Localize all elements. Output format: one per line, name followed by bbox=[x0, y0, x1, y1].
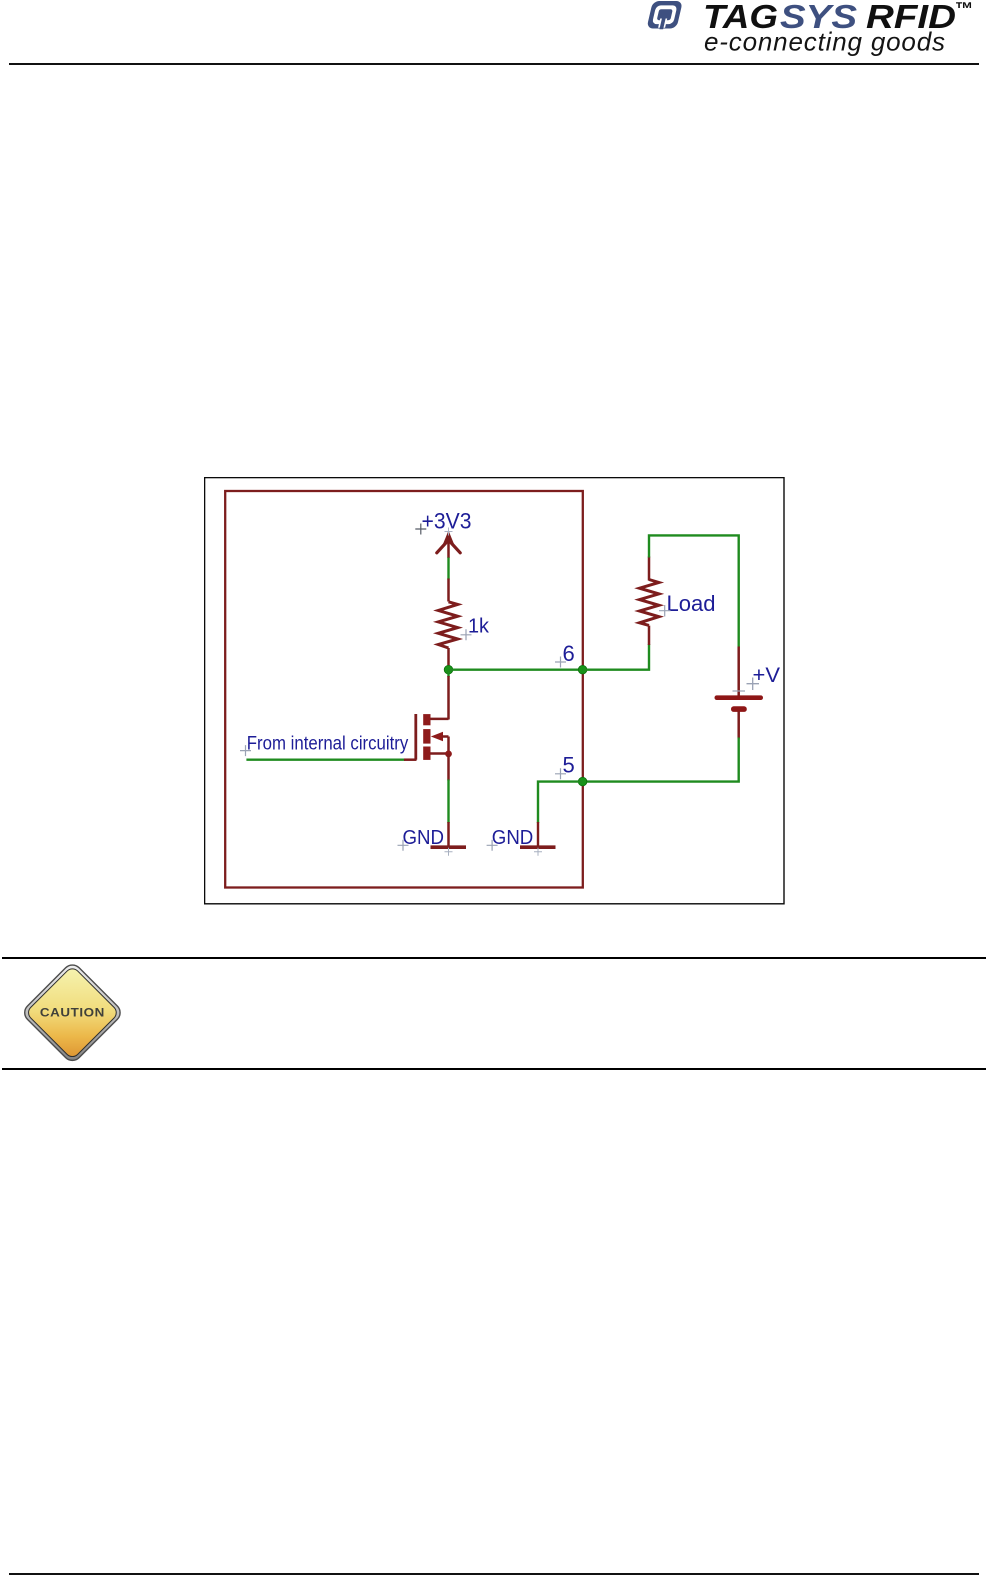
svg-text:+3V3: +3V3 bbox=[422, 509, 472, 534]
resistor Load bbox=[640, 557, 659, 646]
wire battery to pin 5 bbox=[583, 738, 739, 782]
svg-text:e-connecting goods: e-connecting goods bbox=[704, 27, 945, 57]
wire gate net bbox=[246, 759, 416, 761]
pin label 5 bbox=[555, 753, 575, 780]
svg-text:Load: Load bbox=[667, 591, 716, 616]
pin label 6 bbox=[555, 641, 575, 668]
footer rule bbox=[9, 1573, 979, 1575]
svg-text:1k: 1k bbox=[468, 615, 490, 637]
TAGSYS RFID logo bbox=[600, 0, 987, 62]
wire node to pin 6 bbox=[449, 669, 583, 671]
label +3V3 bbox=[415, 509, 471, 535]
wire Q1 source to left GND bbox=[447, 780, 449, 847]
wire pin 5 to right GND bbox=[538, 782, 583, 823]
label GND left bbox=[398, 826, 445, 851]
caution rule bottom bbox=[2, 1068, 986, 1070]
resistor R1 bbox=[438, 579, 457, 667]
caution rule top bbox=[2, 957, 986, 959]
power supply symbol +3V3 bbox=[437, 528, 460, 559]
wire node to Q1 drain bbox=[447, 670, 449, 720]
label +V bbox=[747, 663, 781, 690]
label Load bbox=[659, 591, 716, 617]
svg-text:From internal circuitry: From internal circuitry bbox=[247, 733, 409, 754]
net label From internal circuitry bbox=[240, 733, 409, 756]
battery V bbox=[715, 647, 764, 739]
svg-text:CAUTION: CAUTION bbox=[40, 1006, 105, 1020]
junction node R1 / Q1 drain bbox=[444, 665, 453, 674]
caution icon bbox=[16, 956, 131, 1070]
svg-text:GND: GND bbox=[492, 826, 534, 849]
svg-text:GND: GND bbox=[403, 826, 445, 849]
label GND right bbox=[487, 826, 534, 851]
IC boundary box (internal circuitry outline) bbox=[225, 491, 583, 888]
transistor Q1 N-MOSFET bbox=[416, 714, 452, 781]
wire Load to battery bbox=[649, 535, 739, 647]
value label 1k bbox=[461, 615, 490, 640]
pin 6 junction bbox=[578, 665, 587, 674]
svg-text:™: ™ bbox=[955, 0, 974, 19]
header rule bbox=[9, 63, 979, 65]
ground symbol left bbox=[431, 847, 467, 856]
pin 5 junction bbox=[578, 777, 587, 786]
schematic figure bbox=[204, 477, 785, 905]
wire pin 6 to Load bbox=[583, 644, 649, 670]
ground symbol right bbox=[520, 822, 556, 856]
wire +3V3 to R1 bbox=[447, 558, 449, 580]
